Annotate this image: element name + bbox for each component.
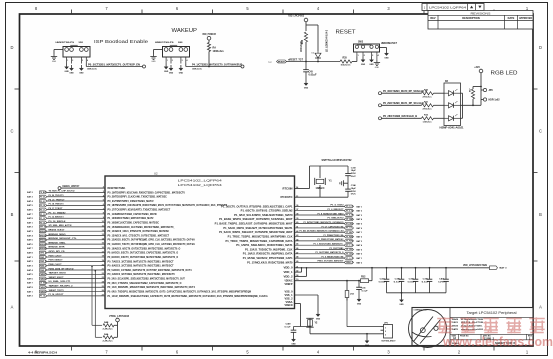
ground under SW4 pin3: [179, 65, 184, 75]
svg-text:C41/: C41/: [380, 277, 385, 280]
svg-text:BAT 8: BAT 8: [27, 252, 33, 255]
svg-text:BAT 3: BAT 3: [357, 214, 363, 217]
switch SW4 wakeup: [155, 41, 190, 63]
svg-text:100Kohm: 100Kohm: [213, 50, 225, 53]
svg-text:P1_11_SWDIO: P1_11_SWDIO: [49, 212, 66, 214]
wire BRIDGE_SSEL: [47, 243, 105, 245]
svg-text:5%/C: 5%/C: [351, 176, 356, 178]
svg-text:BAT 3: BAT 3: [500, 267, 508, 270]
svg-text:DRAWN: DRAWN: [452, 318, 458, 321]
svg-text:P0_17_TCK/CT: P0_17_TCK/CT: [49, 208, 64, 210]
svg-text:P1_15/C: P1_15/C: [346, 249, 353, 251]
net flag P0_16_SWCLK: [40, 221, 48, 224]
ground right of SW3: [384, 50, 389, 60]
pin 46 right: P1_15: [245, 247, 299, 251]
svg-text:ISP Bootload Enable: ISP Bootload Enable: [94, 39, 148, 44]
svg-text:0.1uF: 0.1uF: [422, 281, 430, 283]
wire P0_17_TCK: [47, 209, 105, 211]
wire U0_SSEL_SCK-CT1: [47, 282, 105, 284]
node: open pin circle LED row 2: [379, 104, 382, 107]
wire P1_15: [295, 249, 345, 251]
svg-text:BAT 1: BAT 1: [357, 231, 363, 234]
wire TARGET_TX: [47, 291, 105, 293]
svg-text:SW3: SW3: [358, 42, 364, 44]
wire R36 to nRESET node: [305, 42, 307, 62]
svg-text:2.2Kohm: 2.2Kohm: [103, 329, 113, 331]
svg-text:LPC54102 LQFP64: LPC54102 LQFP64: [429, 6, 466, 10]
wire to +3V3: [480, 73, 482, 105]
svg-text:TDD_LPC54102: TDD_LPC54102: [288, 14, 305, 17]
wire VSS to ground: [295, 294, 319, 296]
net flag P1_1_SDO: [344, 244, 353, 247]
wire SPI_SSEL_MISO_A: [47, 226, 105, 228]
net flag TARGET_TX: [40, 290, 47, 293]
svg-text:P0_1/U0_RXD/SPI1_MISO/CT32B0_M: P0_1/U0_RXD/SPI1_MISO/CT32B0_MAT3/SCT0_I…: [108, 285, 196, 289]
svg-text:PDM0_D: PDM0_D: [40, 270, 47, 272]
pin 13 left: P0_13: [102, 233, 170, 237]
svg-text:BAT 3: BAT 3: [27, 230, 33, 233]
svg-text:GPIO_SPI_CS: GPIO_SPI_CS: [49, 251, 66, 253]
svg-text:HMKDTSILPS: HMKDTSILPS: [155, 42, 174, 44]
svg-text:P1_14_GPIO/CT: P1_14_GPIO/CT: [49, 293, 65, 296]
wire P1_6_MISO2: [295, 210, 345, 212]
svg-text:PDM1_DATA/CT: PDM1_DATA/CT: [49, 259, 64, 262]
wire RTCXIN riser: [309, 166, 311, 189]
net flag P1_8_MOSI2: [344, 214, 353, 217]
svg-text:ISSUED: ISSUED: [452, 326, 458, 328]
node: open circle DEBUG_nRST: [58, 187, 61, 190]
svg-text:P0_17/TCK/SPIFI_IO3/USART3_TXD: P0_17/TCK/SPIFI_IO3/USART3_TXD/CT32B1_MA…: [108, 208, 171, 212]
svg-text:C39/: C39/: [423, 278, 428, 280]
net flag TARGET_MOSI: [40, 273, 47, 276]
svg-text:4: 4: [187, 59, 188, 62]
svg-text:P0_2/U0_CTS/SPI1_SSELN3/CT32B2: P0_2/U0_CTS/SPI1_SSELN3/CT32B2_CAP1/CT32…: [108, 281, 182, 285]
net flag P0_17_TCK: [40, 208, 48, 211]
pin 41 right: P1_CT_CAP: [223, 225, 299, 229]
svg-text:BAT 7: BAT 7: [27, 247, 33, 250]
svg-text:C38/: C38/: [395, 278, 400, 280]
svg-text:P1_14_: P1_14_: [40, 295, 47, 298]
svg-text:1: 1: [67, 60, 68, 62]
pin 19 left: P0_7: [102, 259, 174, 263]
svg-text:3: 3: [82, 60, 83, 62]
svg-text:18pF: 18pF: [351, 188, 357, 190]
pin 38 right: P1_8_MOSI2: [234, 213, 299, 217]
svg-text:1: 1: [385, 327, 386, 329]
svg-text:0.1uF: 0.1uF: [285, 326, 292, 328]
svg-text:VDD_1: VDD_1: [284, 271, 294, 274]
capacitor C41 0.01uF: [384, 268, 390, 293]
svg-text:VREFP: VREFP: [285, 283, 293, 286]
wire R31 to LED package: [434, 104, 445, 106]
svg-text:C: C: [11, 129, 14, 134]
wire P1_PDM0: [295, 236, 345, 238]
svg-text:VSS_2: VSS_2: [285, 297, 294, 300]
svg-text:P1_SACK_WSPI1_SSELN1T_OUT9/SPI: P1_SACK_WSPI1_SSELN1T_OUT9/SPI0_MISO/CT3…: [219, 230, 293, 234]
pin 14 left: P0_12: [102, 237, 195, 241]
svg-text:P1_AN_0/CT32B1_MAT2/SCT0_OUT4/: P1_AN_0/CT32B1_MAT2/SCT0_OUT4/ADC0_3/U: [300, 230, 344, 233]
svg-text:BAT 5: BAT 5: [27, 273, 33, 276]
net flag P1_6_MISO2: [344, 209, 353, 212]
wire LED row 3: [382, 117, 422, 119]
crystal Y2 32.768kHz: [306, 318, 318, 327]
wire PMU1_0: [295, 261, 345, 263]
wire FB2 to VDD bus: [369, 280, 373, 282]
svg-text:P1_6_M: P1_6_M: [346, 210, 353, 212]
svg-text:P1_PDM: P1_PDM: [346, 241, 353, 243]
svg-text:PDM1_C: PDM1_C: [40, 257, 47, 259]
svg-text:BRIDGE: BRIDGE: [40, 244, 47, 246]
svg-text:WAKEUP: WAKEUP: [172, 28, 198, 34]
svg-text:P1_CT_: P1_CT_: [346, 228, 353, 230]
pin 15 left: P0_11: [102, 242, 195, 246]
svg-text:VDD_LPC54102/CT32B: VDD_LPC54102/CT32B: [463, 264, 487, 267]
svg-text:BAT 1: BAT 1: [27, 256, 33, 259]
node: open pin circle LED row 1: [379, 92, 382, 95]
pin 42 right: VDD_1: [284, 270, 300, 274]
svg-text:BAT 2: BAT 2: [27, 226, 33, 229]
wire P1_INTR: [295, 223, 345, 225]
svg-text:PDM1_D: PDM1_D: [40, 261, 47, 263]
wire DEBUG_nRST to RESETN: [61, 187, 105, 189]
node: open pin circle WAKEUP net: [241, 65, 244, 68]
diode D4: [312, 51, 322, 62]
svg-text:LPC54102_LQFP64: LPC54102_LQFP64: [178, 183, 223, 187]
ground VSS: [316, 311, 321, 321]
svg-text:P1_9_VBUS/CT32B1_MA: P1_9_VBUS/CT32B1_MA: [322, 255, 344, 258]
svg-text:GND: GND: [179, 73, 184, 75]
svg-text:2: 2: [172, 60, 173, 62]
resistor R4B 2.2Kohm: [92, 324, 102, 326]
svg-text:P0_7/ADC0_3/CT32B3_MAT1/SCT0_I: P0_7/ADC0_3/CT32B3_MAT1/SCT0_IN3/CT32B1_…: [108, 259, 174, 263]
svg-text:GND: GND: [357, 304, 362, 306]
svg-text:P1_PDM: P1_PDM: [346, 236, 353, 238]
svg-text:BRIDGE_SSEL: BRIDGE_SSEL: [49, 242, 67, 244]
svg-text:PDM1_CLK/CT: PDM1_CLK/CT: [49, 255, 63, 257]
svg-text:R4B: R4B: [104, 321, 109, 324]
svg-text:D: D: [11, 45, 14, 50]
svg-text:P0_21_TRST/CT: P0_21_TRST/CT: [49, 199, 66, 201]
svg-text:P1_6/SCT0_OUT8/U3_CTS/SPI0_SSE: P1_6/SCT0_OUT8/U3_CTS/SPI0_SSELN2: [241, 209, 293, 213]
ground under SW3 pin2: [361, 57, 366, 67]
resistor R30 270ohm: [422, 92, 434, 95]
net flag P1_12_SWO: [40, 217, 48, 220]
svg-text:BRIDGE_MOSI-ISP_CTL: BRIDGE_MOSI-ISP_CTL: [49, 238, 78, 240]
wire TARGET_RX-ISP0_2: [47, 286, 105, 288]
svg-text:REV: REV: [430, 16, 436, 20]
svg-text:GPIO_S: GPIO_S: [40, 253, 47, 255]
svg-text:D: D: [539, 45, 542, 50]
capacitor C36 0.1uF: [358, 280, 360, 282]
svg-text:P0_18/TMS/SPIFI_IO2/USART3_RXD: P0_18/TMS/SPIFI_IO2/USART3_RXD/CT32B0_MA…: [108, 203, 229, 207]
svg-text:1uF/CT: 1uF/CT: [438, 281, 446, 283]
svg-text:BAT 2: BAT 2: [27, 260, 33, 263]
pin 11 left: P0_15: [102, 225, 175, 229]
svg-text:www.elecfans.com: www.elecfans.com: [442, 334, 553, 349]
svg-text:RESETN/CT32B1: RESETN/CT32B1: [108, 186, 126, 190]
capacitor C35 0.01uF: [413, 268, 419, 293]
svg-text:12MHz/C: 12MHz/C: [316, 188, 325, 190]
net flag TARGET_RX-ISP0_2: [40, 286, 47, 289]
svg-text:APPROVED: APPROVED: [519, 17, 532, 20]
wire P1_AN_0: [295, 231, 345, 233]
pin 23 left: P0_3: [102, 277, 186, 281]
svg-text:BRIDGE: BRIDGE: [40, 231, 47, 233]
ground at SW4 left: [150, 54, 156, 63]
net flag PDM1_CLK: [40, 256, 47, 259]
svg-text:P1_BASE_WSPI1_SSELN3T_OUT9/SPI: P1_BASE_WSPI1_SSELN3T_OUT9/SPI0_SCK/SSEL…: [219, 217, 293, 221]
svg-text:P0_5/CT32B1_MAT3/SCT0_OUT7/ISP: P0_5/CT32B1_MAT3/SCT0_OUT7/ISP_EN: [88, 62, 140, 66]
svg-text:C45: C45: [309, 71, 314, 74]
wire P1_CT_CAP: [295, 227, 345, 229]
wire LED row 2: [382, 104, 422, 106]
pin 35 right: RTCXOUT: [281, 196, 300, 199]
svg-text:BRIDGE_MISO: BRIDGE_MISO: [49, 234, 66, 236]
ground under SW3 pin4: [374, 60, 380, 69]
net flag P1_5_SCK2: [344, 205, 353, 208]
svg-text:3: 3: [385, 335, 386, 337]
svg-text:BAT 6: BAT 6: [27, 277, 33, 280]
svg-text:BRIDGE: BRIDGE: [40, 240, 47, 242]
svg-text:P1_SSE: P1_SSE: [346, 219, 353, 221]
revisions table: [428, 11, 533, 30]
svg-text:P1_5_SCK2: P1_5_SCK2: [331, 205, 345, 207]
net flag P1_16: [344, 252, 353, 255]
svg-text:P1_9/USB_VBUS/U2_RTS/CT32B0_CA: P1_9/USB_VBUS/U2_RTS/CT32B0_CAP1: [243, 256, 293, 260]
pin 10 left: P0_16: [102, 220, 160, 224]
wire GPIO_SPI_CS: [47, 252, 105, 254]
power +3V3 LED: [474, 67, 483, 73]
svg-text:BRIDGE: BRIDGE: [40, 235, 47, 237]
svg-text:C: C: [539, 129, 542, 134]
sheet mini title block LPC54102 LQFP64: [422, 4, 484, 11]
capacitor C34 18pF: [345, 183, 351, 197]
pin 42 right: P1_AN_0: [219, 230, 299, 234]
svg-text:P0_16_SWCLK: P0_16_SWCLK: [49, 221, 66, 223]
pin 21 right: VDD_0: [284, 266, 300, 269]
pin 10 right: VDDA: [285, 279, 300, 286]
capacitor C38 0.1uF: [399, 268, 405, 293]
svg-text:P0_20_: P0_20_: [40, 197, 47, 199]
pin 3 left: P0_19: [103, 190, 186, 194]
node: open pin circle ISP net: [143, 65, 146, 68]
net flag P0_21_TRST: [40, 200, 48, 203]
svg-text:GND: GND: [369, 64, 374, 66]
wire P0_21_TRST: [47, 200, 105, 202]
resistor R36 100Kohm: [304, 32, 307, 42]
wire P0_18_TMS: [47, 204, 105, 206]
wire SW3 pin4 to ground bars: [376, 57, 378, 61]
net flag P1_CT_CAP: [344, 227, 353, 230]
net flag PMU1_0: [344, 261, 353, 264]
svg-text:BRIDGE_SCK/CT: BRIDGE_SCK/CT: [49, 230, 66, 232]
wire crystal top rail: [310, 165, 349, 167]
svg-text:DATE: DATE: [508, 16, 515, 20]
ground under SW4 pin1: [164, 64, 169, 74]
pin 20 left: P0_6: [102, 264, 174, 268]
svg-text:VDD_2: VDD_2: [284, 275, 294, 278]
svg-text:P1_17/MCLK/U3_RXD/CT32B0_MAT0: P1_17/MCLK/U3_RXD/CT32B0_MAT0: [247, 260, 293, 264]
wire switch SW4 left to ground: [154, 49, 163, 51]
svg-text:PMU1_0: PMU1_0: [346, 262, 353, 264]
pin 27 left: P1_14: [102, 294, 268, 298]
ground under SW5 pin1: [64, 64, 69, 74]
svg-text:0.1uF: 0.1uF: [394, 281, 402, 283]
svg-text:TARGET: TARGET: [40, 286, 47, 289]
svg-text:VTRG_LPC54102: VTRG_LPC54102: [109, 315, 130, 318]
svg-text:VREFN: VREFN: [285, 304, 293, 307]
svg-text:2: 2: [72, 60, 73, 62]
wire JS2 branch to U3: [346, 298, 348, 327]
svg-text:C40/: C40/: [439, 277, 444, 280]
svg-text:P0_30/CT32B0_MAT0_RP_SDA/LED_R: P0_30/CT32B0_MAT0_RP_SDA/LED_R: [383, 90, 427, 93]
wire Y2 to U3: [309, 327, 311, 334]
net flag BRIDGE_SCK: [40, 230, 47, 233]
svg-text:BRIDGE: BRIDGE: [40, 248, 47, 250]
net flag P0_20_TDO: [40, 195, 48, 198]
pin 18 left: P0_8: [102, 255, 179, 259]
ground cap bank: [399, 297, 404, 307]
svg-text:PDM0_DATA_ISP_EN/CT32: PDM0_DATA_ISP_EN/CT32: [49, 267, 75, 270]
capacitor C45 0.01uF: [303, 62, 309, 81]
pin 9 left: P1_12: [103, 216, 154, 220]
svg-text:VDD_PCM1V8: VDD_PCM1V8: [202, 34, 216, 36]
svg-text:GND: GND: [316, 319, 321, 321]
svg-text:R4A: R4A: [104, 333, 109, 336]
resistor R28 4k7: [471, 89, 474, 99]
svg-text:100Kohm/C: 100Kohm/C: [87, 68, 97, 70]
wire BRIDGE_INTR: [47, 247, 105, 249]
wire row19 drop: [94, 271, 96, 338]
wire RTC to U3: [310, 333, 381, 335]
wire to ground: [401, 293, 403, 297]
svg-text:BAT 1: BAT 1: [27, 221, 33, 224]
wire cap bank ground rail: [387, 292, 447, 294]
svg-text:C33/: C33/: [351, 167, 356, 169]
wire R32 to LED package: [434, 117, 445, 119]
pin 58 right: VDD_2: [284, 275, 300, 278]
pin 47 right: P1_16: [243, 251, 299, 255]
svg-text:BAT 2: BAT 2: [357, 210, 363, 213]
resistor R4A 2.2Kohm: [95, 336, 102, 338]
svg-text:4: 4: [87, 59, 88, 62]
switch SW5 ISP bootload: [56, 42, 91, 63]
svg-text:CHECK: CHECK: [452, 322, 458, 324]
wire R28: [472, 87, 474, 90]
wire R35 to SW3: [352, 61, 357, 63]
svg-text:BAT 3: BAT 3: [357, 240, 363, 243]
svg-text:P1_1_S: P1_1_S: [346, 245, 353, 247]
wire PDM0_DATA_ISP_EN: [47, 269, 105, 271]
net flag P1_9_VBUS: [344, 257, 353, 260]
svg-text:270ohm: 270ohm: [423, 109, 432, 111]
wire P1_8_MOSI2: [295, 214, 345, 216]
svg-text:P0_14/ADC0_10/U1_RTS/SCT0_OUT6: P0_14/ADC0_10/U1_RTS/SCT0_OUT6/CT32B1_MA…: [108, 229, 170, 233]
wire P1_1_SDO: [295, 244, 345, 246]
svg-text:1: 1: [167, 60, 168, 62]
svg-text:GND: GND: [169, 73, 174, 75]
svg-text:BAT 8: BAT 8: [27, 217, 33, 220]
svg-text:DESCRIPTION: DESCRIPTION: [462, 16, 480, 20]
svg-text:P0_21_: P0_21_: [40, 201, 47, 203]
svg-text:P0_16_: P0_16_: [40, 222, 47, 224]
wire BRIDGE_SCK: [47, 230, 105, 232]
ground under C45: [304, 80, 309, 90]
svg-text:GND: GND: [361, 64, 366, 66]
svg-text:P1_PDM0/CT32B1_MA: P1_PDM0/CT32B1_MA: [324, 234, 344, 237]
pin 22 left: P0_4: [102, 272, 176, 276]
svg-text:TARGET_MOSI: TARGET_MOSI: [49, 272, 66, 275]
svg-text:TARGET_SCK/CT: TARGET_SCK/CT: [49, 276, 65, 279]
resistor RA 100Kohm: [207, 43, 210, 52]
company logo: [409, 310, 447, 348]
wire P0_20_TDO: [47, 196, 105, 198]
svg-text:P0_18_TMS/CT3: P0_18_TMS/CT3: [49, 204, 65, 206]
pin 39 right: P1_SSEL2: [219, 217, 299, 221]
power VTRG_LPC54102: [116, 318, 120, 322]
svg-text:R35: R35: [343, 57, 348, 59]
LED package D2 HSMF-A341: [440, 81, 465, 130]
svg-text:BRIDGE_INTR: BRIDGE_INTR: [49, 247, 65, 249]
svg-text:BAT 5: BAT 5: [27, 204, 33, 207]
jumper JS2: [345, 284, 354, 301]
svg-text:C48/: C48/: [286, 322, 291, 325]
wire resistors to VTRG: [114, 324, 118, 326]
svg-text:P1_INTR/CT32B1_MAT2/SCT0_OUT4/: P1_INTR/CT32B1_MAT2/SCT0_OUT4/ADC0: [304, 221, 345, 224]
svg-text:P0_19/TDI/SPIFI_IO1/CAN0_RXD/C: P0_19/TDI/SPIFI_IO1/CAN0_RXD/CT32B0_CAP0…: [108, 190, 186, 194]
svg-text:BAT 2: BAT 2: [27, 295, 33, 298]
svg-text:P0_11/ADC0_7/SCT0_OUT3/FREQME_: P0_11/ADC0_7/SCT0_OUT3/FREQME_GPIO_CLK_A…: [108, 242, 196, 246]
svg-text:P1_15/CT32B1: P1_15/CT32B1: [330, 248, 345, 250]
svg-text:SPI_SS: SPI_SS: [40, 227, 47, 229]
svg-text:P1_9_V: P1_9_V: [346, 258, 353, 260]
svg-text:BAT 1: BAT 1: [357, 257, 363, 260]
svg-text:BAT 6: BAT 6: [27, 243, 33, 246]
port nRESET_TGT: [268, 60, 287, 64]
svg-text:U0_SSE: U0_SSE: [40, 283, 47, 285]
switch SW3 reset: [354, 42, 398, 57]
net flag P1_PDM1: [344, 239, 353, 242]
svg-text:2.2Kohm: 2.2Kohm: [103, 341, 113, 343]
wire RTCXOUT: [295, 196, 349, 198]
svg-text:BAT 8: BAT 8: [27, 286, 33, 289]
svg-text:GND: GND: [79, 73, 84, 75]
svg-text:HMKDTSILPS: HMKDTSILPS: [56, 42, 75, 44]
svg-text:18pF: 18pF: [351, 170, 357, 172]
resistor R31 270ohm: [422, 104, 434, 107]
wire reset pullup: [305, 22, 307, 31]
wire switch SW5 left to ground: [54, 49, 63, 51]
wire R30 to LED package: [434, 92, 445, 94]
pin 8 left: P1_11: [103, 212, 157, 216]
svg-text:P1_5/SCT0_OUT7/U3_RTS/SPI0_SSE: P1_5/SCT0_OUT7/U3_RTS/SPI0_SSELN1/CT32B1…: [221, 204, 293, 208]
svg-text:P0_28/CT32B0_MAT2/LED_B: P0_28/CT32B0_MAT2/LED_B: [383, 115, 417, 118]
wire D4 anode: [317, 25, 319, 51]
wire RTCXIN: [295, 188, 310, 190]
svg-text:P0_29/CT32B0_MAT1_RP_SCL/LED_G: P0_29/CT32B0_MAT1_RP_SCL/LED_G: [383, 102, 427, 105]
connector JP6 HDR-1x02: [481, 88, 500, 101]
svg-text:P0_6/ADC0_2/CT32B3_MAT0/SCT0_I: P0_6/ADC0_2/CT32B3_MAT0/SCT0_IN2/CT32B1_…: [108, 264, 174, 268]
svg-text:4-4 PERIPH.SCH: 4-4 PERIPH.SCH: [28, 350, 57, 354]
net flag P1_SSEL2: [344, 218, 353, 221]
pin 7 left: P0_17: [103, 208, 171, 212]
net flag BRIDGE_MOSI-ISP_CTL: [40, 238, 47, 241]
pin 21 left: P0_5: [102, 268, 192, 272]
svg-text:SSPTTH+12.5PF25-R/CT32: SSPTTH+12.5PF25-R/CT32: [322, 158, 353, 162]
net flag P1_AN_0: [344, 231, 353, 234]
pin 4 left: P0_20: [103, 194, 167, 198]
pin 24 left: P0_2: [102, 281, 182, 285]
